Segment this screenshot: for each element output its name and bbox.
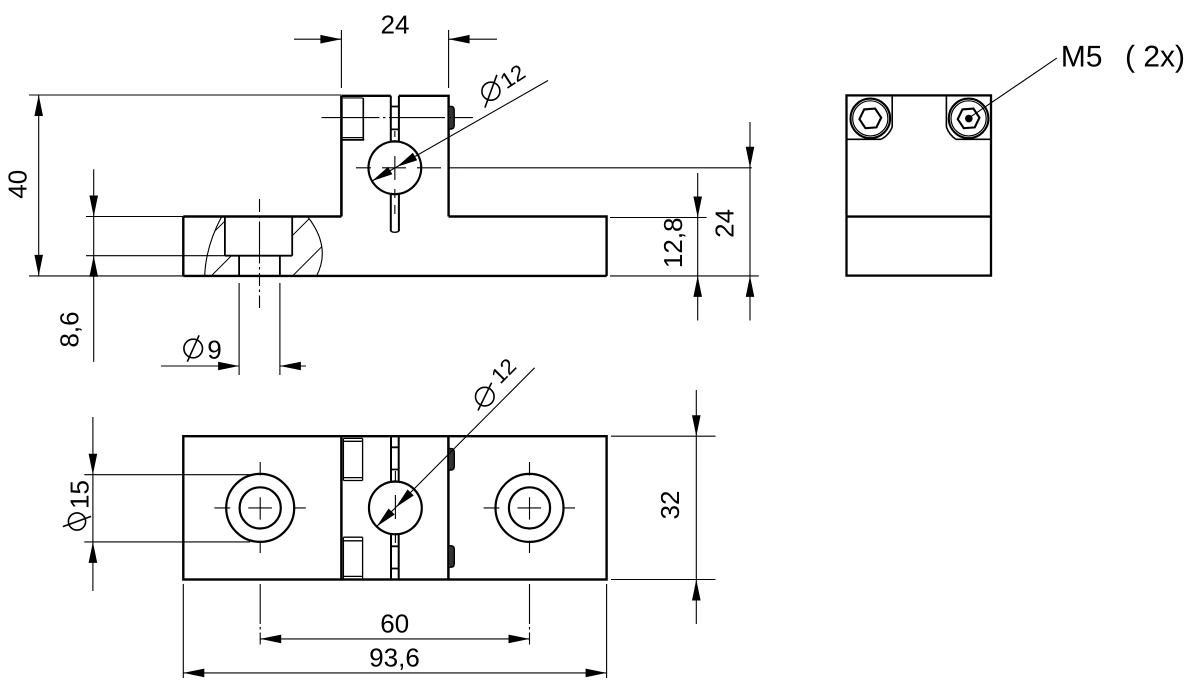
bore circle D12 (plan, arcs broken at slit) — [369, 482, 422, 535]
label M5 (2x) — [1063, 46, 1101, 67]
clamp slit left wall — [390, 96, 392, 231]
leader D12 (plan) line — [377, 368, 535, 527]
clamp screw shank crossing slit — [391, 107, 399, 130]
right head pocket — [946, 95, 991, 139]
clamp slit bottom cap — [391, 231, 399, 232]
dim 32 extension lines — [611, 436, 716, 579]
screw B hex socket — [957, 108, 980, 128]
dim 8,6 text (rotated) — [60, 313, 81, 347]
dim 12,8 dimension line with outside arrows — [697, 173, 699, 321]
screw B head chamfer circle — [951, 101, 986, 136]
tower outline — [341, 96, 448, 217]
dim D9 text — [184, 335, 221, 361]
screw 1 head (plan) — [343, 438, 362, 480]
leader M5 line — [969, 58, 1057, 118]
base plate bottom edge — [183, 275, 606, 277]
dim 93,6 extension lines — [183, 584, 606, 678]
screw axis centerline — [322, 117, 473, 119]
base top edge (side) — [847, 215, 992, 217]
leader D12 (plan) arrowheads — [377, 490, 414, 527]
screw A head outer circle — [851, 99, 891, 139]
slit left wall (plan) — [390, 436, 392, 579]
dim 40 dimension line with inside arrows — [38, 95, 40, 276]
tower right edge — [447, 436, 450, 579]
dim D15 text (rotated) — [63, 481, 91, 530]
bore vertical centerline (plan) — [394, 471, 396, 545]
dim 40 extension lines — [29, 95, 341, 276]
dim 60 text — [382, 614, 409, 632]
left head pocket — [847, 95, 893, 139]
slit right wall (plan) — [398, 436, 400, 579]
screw 2 shank edges across slit — [391, 546, 399, 568]
break-out section boundary right — [308, 217, 323, 276]
leader D12 line — [372, 81, 548, 182]
dim D9 dimension line with outside arrows — [161, 365, 306, 367]
clamp screw tip protruding right — [449, 106, 455, 129]
section hatching — [164, 204, 364, 282]
bore horizontal centerline — [356, 167, 460, 169]
dim 24 (right) text (rotated) — [715, 210, 733, 237]
dim 32 dimension line with outside arrows — [695, 390, 697, 624]
screw 1 shank edges across slit — [391, 447, 399, 469]
screw B head outer circle — [949, 99, 989, 139]
left hole crosshair — [214, 507, 306, 509]
bore vertical centerline — [394, 131, 396, 214]
leader D12 (plan) text (rotated) — [476, 357, 517, 410]
dim D9 extension lines — [239, 283, 280, 375]
dim 60 extension lines — [260, 584, 529, 645]
screw A head chamfer circle — [853, 101, 888, 136]
tower left edge — [340, 436, 343, 579]
screw A hex socket — [859, 108, 882, 128]
dim 24 (right) dimension line with outside arrows — [749, 122, 751, 321]
dim 24 (top) extension lines — [341, 30, 448, 88]
dim 93,6 dimension line with inside arrows — [183, 672, 606, 674]
through hole D9 walls — [239, 256, 280, 276]
counterbore hole centerline — [259, 199, 261, 308]
dim D15 extension lines (tangents) — [84, 475, 251, 542]
dim 12,8 extension line — [610, 218, 759, 276]
counterbore hole left: inner circle D9 — [240, 487, 281, 528]
dim 8,6 dimension line with outside arrows — [93, 169, 95, 362]
leader D12 text (rotated) — [482, 64, 526, 108]
clamp slit right wall — [398, 96, 400, 231]
dim 40 text (rotated) — [8, 171, 26, 198]
dim D15 dimension line with outside arrows — [92, 417, 94, 591]
extension line from bore center to 24 dim — [460, 167, 752, 169]
screw 2 head (plan) — [343, 537, 362, 579]
counterbore hole right: inner circle D9 — [509, 487, 550, 528]
counterbore section rectangle D15 — [225, 217, 292, 256]
base plate outline — [183, 217, 606, 276]
counterbore hole left: outer circle D15 — [226, 474, 294, 542]
screw 1 tip protruding (plan) — [448, 449, 454, 470]
dim 24 (top) dimension line with outside arrows — [294, 38, 497, 40]
dim 8,6 extension lines — [86, 217, 225, 256]
bore circle D12 (arcs broken at slit) — [368, 141, 421, 194]
dim 12,8 text (rotated) — [664, 219, 685, 266]
counterbore hole right: outer circle D15 — [496, 474, 564, 542]
clamp screw head pocket — [343, 98, 363, 138]
plate outline rectangle — [183, 436, 606, 579]
dim 93,6 text — [370, 648, 418, 669]
dim 60 dimension line with inside arrows — [260, 638, 529, 640]
break-out section boundary left — [205, 217, 222, 276]
screw 2 tip protruding (plan) — [448, 546, 454, 567]
right hole crosshair — [484, 507, 576, 509]
side outline rectangle — [847, 95, 992, 275]
dim 32 text (rotated) — [661, 492, 679, 519]
leader M5 dot — [965, 115, 973, 123]
dim 24 (top) text — [382, 15, 409, 33]
leader D12 arrowheads — [372, 153, 417, 181]
